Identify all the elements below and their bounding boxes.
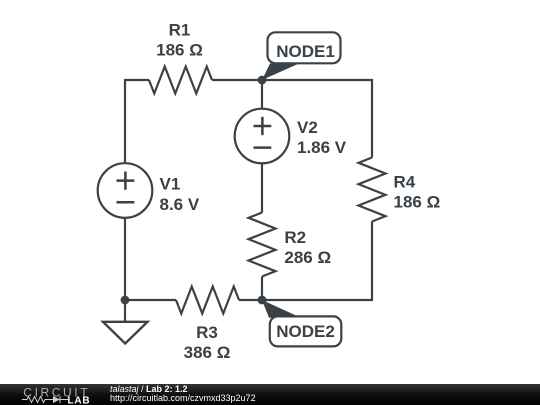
svg-text:NODE1: NODE1 bbox=[276, 42, 335, 61]
svg-text:386 Ω: 386 Ω bbox=[184, 343, 231, 362]
svg-text:186 Ω: 186 Ω bbox=[394, 192, 441, 211]
wire R3 left to ground node bbox=[125, 299, 176, 301]
svg-text:286 Ω: 286 Ω bbox=[284, 248, 331, 267]
svg-text:V2: V2 bbox=[297, 118, 318, 137]
svg-text:R2: R2 bbox=[284, 228, 306, 247]
NODE2 callout box bbox=[270, 316, 342, 346]
wire R4 bottom to bottom-right corner to node NODE2 bbox=[262, 222, 372, 301]
resistor R4 zigzag bbox=[359, 158, 386, 222]
wire R2 bottom to node NODE2 bbox=[261, 277, 263, 301]
V2 plus sign bbox=[254, 117, 272, 135]
svg-text:186 Ω: 186 Ω bbox=[156, 41, 203, 60]
svg-text:V1: V1 bbox=[160, 175, 181, 194]
voltage source V1 circle bbox=[98, 163, 153, 218]
resistor R3 zigzag bbox=[176, 287, 239, 314]
footer title text bbox=[110, 385, 256, 403]
wire ground node to ground symbol bbox=[124, 300, 126, 322]
svg-text:8.6 V: 8.6 V bbox=[160, 195, 200, 214]
wire R1 right to node NODE1 bbox=[212, 79, 262, 81]
node junction dot NODE1 bbox=[258, 76, 267, 85]
NODE2 callout pointer bbox=[262, 300, 301, 318]
V1 minus sign bbox=[117, 201, 135, 204]
footer bar bbox=[0, 384, 540, 405]
NODE1 callout pointer bbox=[262, 64, 299, 81]
svg-text:R4: R4 bbox=[394, 172, 416, 191]
svg-text:1.86 V: 1.86 V bbox=[297, 138, 347, 157]
svg-text:LAB: LAB bbox=[68, 396, 91, 405]
resistor R2 zigzag bbox=[249, 213, 276, 277]
ground symbol triangle bbox=[103, 322, 148, 344]
wire V1 bottom to ground node bbox=[124, 218, 126, 300]
wire V2 bottom to R2 top bbox=[261, 164, 263, 213]
wire top-left corner (V1 top to R1 left) bbox=[125, 80, 149, 163]
wire node NODE2 to R3 right bbox=[239, 299, 262, 301]
resistor R1 zigzag bbox=[149, 67, 212, 94]
node junction dot NODE2 bbox=[258, 296, 267, 305]
wire node NODE1 to V2 top bbox=[261, 80, 263, 109]
wire node NODE1 to top-right corner down to R4 top bbox=[262, 80, 372, 158]
NODE1 callout box bbox=[268, 32, 341, 63]
voltage source V2 circle bbox=[235, 109, 290, 164]
svg-text:R1: R1 bbox=[169, 21, 191, 40]
CircuitLab logo bbox=[20, 384, 112, 405]
V1 plus sign bbox=[117, 172, 135, 190]
svg-text:R3: R3 bbox=[196, 323, 218, 342]
svg-text:NODE2: NODE2 bbox=[276, 322, 335, 341]
node junction dot ground bbox=[121, 296, 130, 305]
V2 minus sign bbox=[254, 146, 272, 149]
